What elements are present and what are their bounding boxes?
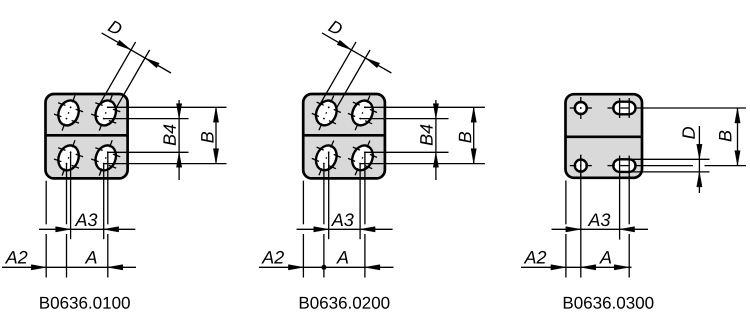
dimension A3 xyxy=(297,213,393,232)
label B0636.0100 xyxy=(40,297,130,309)
dimension B xyxy=(459,107,477,163)
dimension A2 and A xyxy=(2,251,136,270)
dimension A3 xyxy=(552,213,649,232)
plate B0636.0100 xyxy=(46,94,128,178)
extension lines right slot edges xyxy=(630,159,710,172)
extension lines from bottom holes xyxy=(324,152,365,277)
dimension B xyxy=(719,108,740,166)
extension line plate edge xyxy=(565,181,567,278)
extension line plate edge xyxy=(45,181,47,278)
slot hole bottom-left xyxy=(54,140,83,175)
slot hole bottom-right xyxy=(91,140,120,175)
label B0636.0300 xyxy=(564,297,654,309)
slot hole top-right xyxy=(91,95,120,130)
dimension B4 xyxy=(420,100,438,180)
plate B0636.0300 xyxy=(566,94,643,178)
extension lines from bottom holes xyxy=(581,155,629,277)
slot hole top-left xyxy=(312,96,341,131)
extension lines right xyxy=(104,107,227,163)
round hole bottom-left xyxy=(570,155,592,177)
slot hole bottom-right xyxy=(348,141,377,176)
slot hole top-left xyxy=(54,95,83,130)
dimension A2 and A xyxy=(521,251,632,270)
slot hole top-right xyxy=(608,98,747,118)
dimension B4 xyxy=(163,100,181,180)
label B0636.0200 xyxy=(300,297,390,309)
dimension A2 and A xyxy=(259,251,394,270)
dimension D slot width xyxy=(100,20,172,109)
slot hole bottom-left xyxy=(312,141,341,176)
slot hole top-right xyxy=(348,96,377,131)
dimension A3 xyxy=(39,213,135,232)
dimension B xyxy=(201,107,219,163)
round hole top-left xyxy=(570,97,592,119)
plate B0636.0200 xyxy=(303,94,385,178)
extension line plate edge xyxy=(302,181,304,278)
extension lines from bottom holes xyxy=(67,152,108,277)
dimension D slot width xyxy=(682,126,702,193)
dimension D slot width xyxy=(320,20,392,109)
extension lines right xyxy=(360,107,485,163)
slot hole bottom-right xyxy=(608,159,747,172)
